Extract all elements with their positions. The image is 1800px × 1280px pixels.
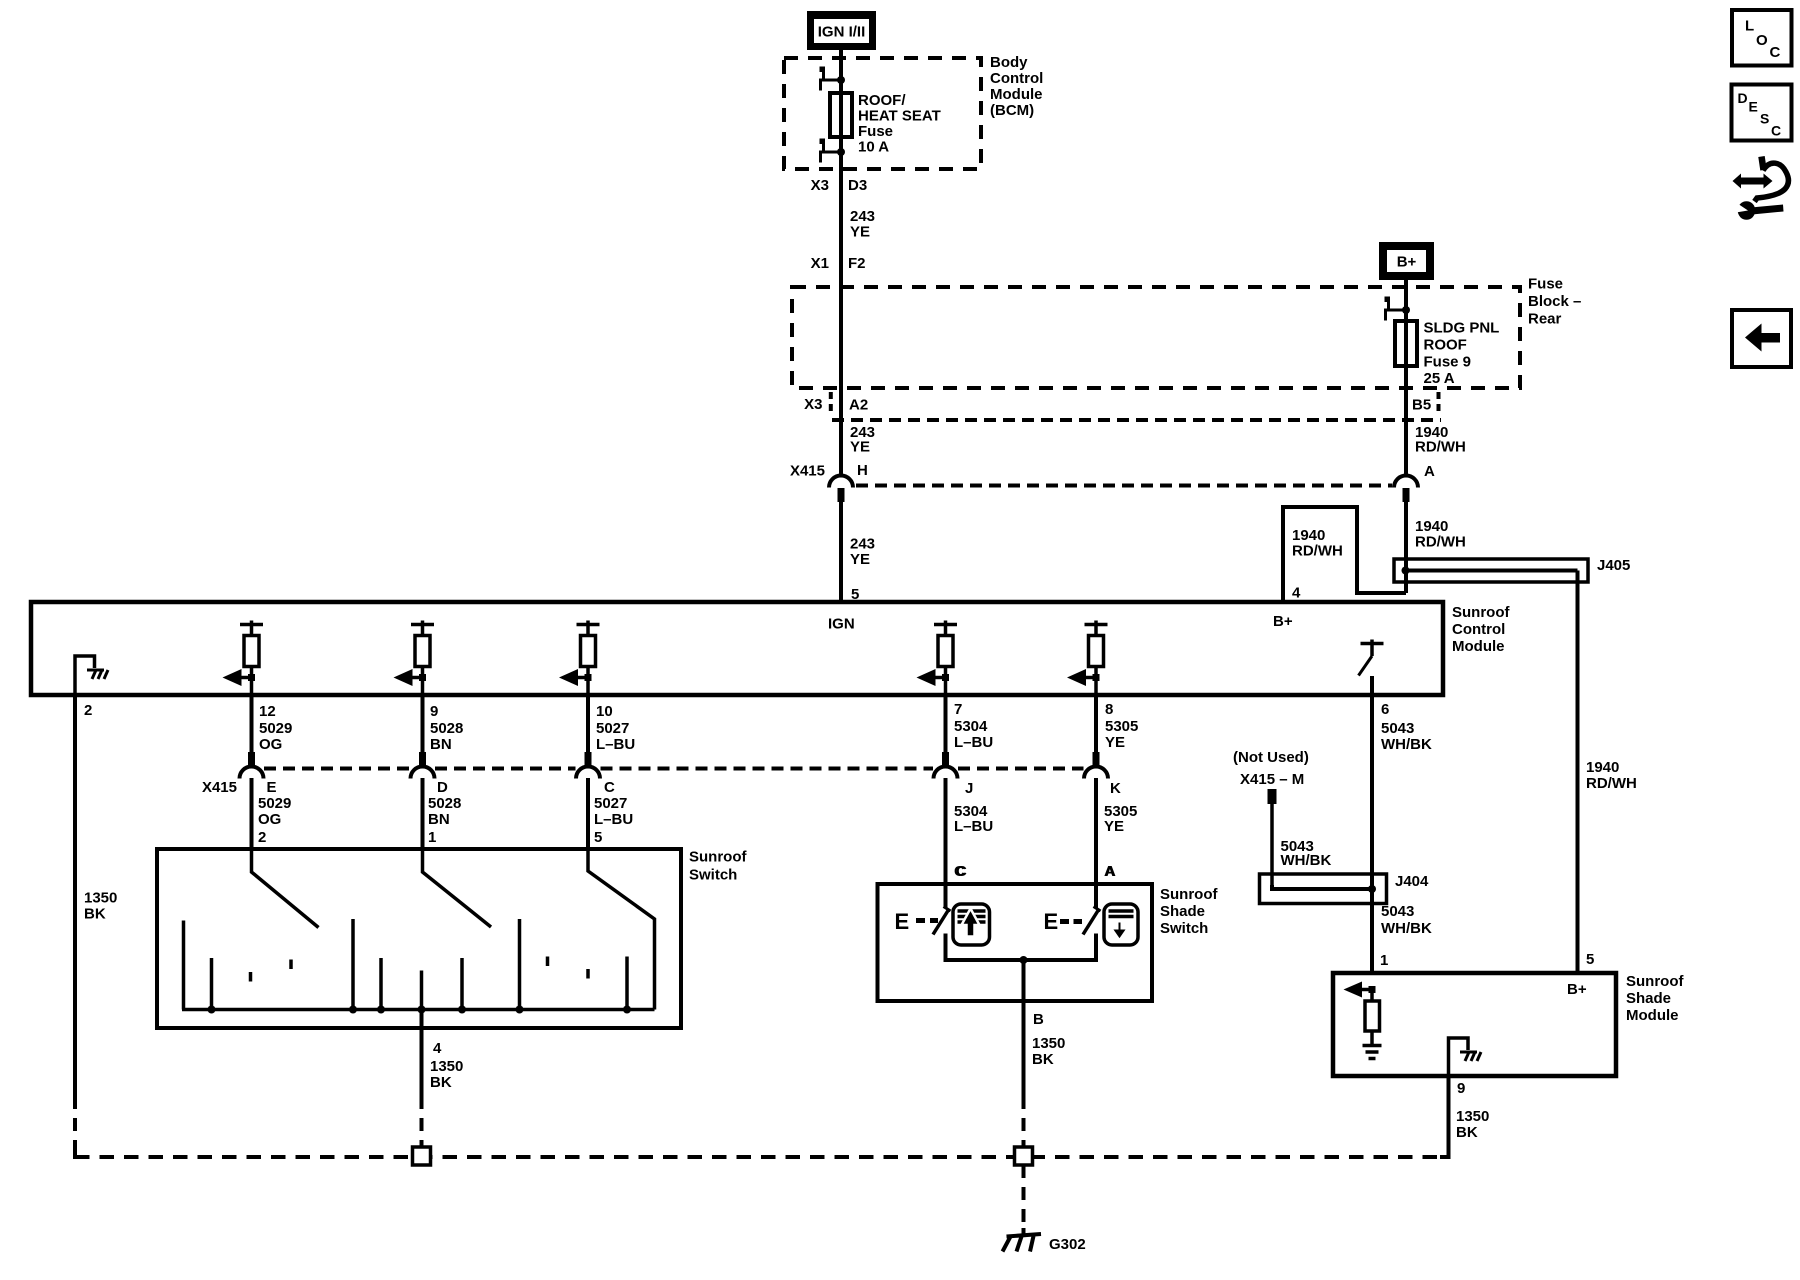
svg-text:12: 12	[259, 703, 276, 720]
driver output pin 8	[1067, 621, 1108, 696]
svg-text:1350: 1350	[84, 890, 117, 907]
Sunroof Shade Switch name label	[1160, 886, 1218, 937]
svg-text:5029: 5029	[258, 795, 291, 812]
Body Control Module dashed box	[784, 58, 981, 169]
svg-text:8: 8	[1105, 701, 1113, 718]
wire label 243 YE	[850, 208, 875, 241]
svg-text:OG: OG	[259, 736, 282, 753]
svg-text:Sunroof: Sunroof	[1626, 973, 1684, 990]
svg-text:YE: YE	[850, 224, 870, 241]
svg-text:1350: 1350	[430, 1058, 463, 1075]
svg-text:Switch: Switch	[1160, 920, 1208, 937]
svg-text:Control: Control	[1452, 621, 1505, 638]
svg-text:SLDG PNL: SLDG PNL	[1424, 320, 1500, 337]
wire 5305 YE to shade switch pin A	[1094, 778, 1098, 908]
connector X415 row label	[202, 779, 237, 796]
svg-text:10: 10	[596, 703, 613, 720]
svg-text:(Not Used): (Not Used)	[1233, 749, 1309, 766]
switch blade from pin 5 to common	[588, 849, 655, 1010]
svg-text:ROOF: ROOF	[1424, 337, 1467, 354]
connector label X415	[790, 463, 825, 480]
svg-text:5304: 5304	[954, 718, 988, 735]
svg-text:Sunroof: Sunroof	[1452, 604, 1510, 621]
svg-text:OG: OG	[258, 811, 281, 828]
wire label 1350 BK	[1032, 1035, 1065, 1068]
driver output pin 12	[223, 621, 264, 696]
svg-text:2: 2	[84, 702, 92, 719]
label G302	[1049, 1236, 1086, 1253]
svg-text:Sunroof: Sunroof	[1160, 886, 1218, 903]
svg-text:Fuse: Fuse	[858, 123, 893, 140]
svg-text:X415 – M: X415 – M	[1240, 771, 1304, 788]
svg-text:BK: BK	[1456, 1124, 1478, 1141]
svg-text:5028: 5028	[428, 795, 461, 812]
svg-text:O: O	[1756, 32, 1768, 49]
Fuse Block Rear name label	[1528, 276, 1581, 328]
input arrow and junction at pin 1	[1344, 982, 1376, 998]
wire label 1940 RD/WH	[1415, 424, 1466, 456]
svg-text:B+: B+	[1567, 981, 1587, 998]
svg-text:IGN: IGN	[828, 616, 855, 633]
svg-text:5043: 5043	[1381, 903, 1414, 920]
svg-text:K: K	[1110, 780, 1121, 797]
icon box DESC	[1732, 85, 1792, 141]
pin name IGN	[828, 616, 855, 633]
svg-text:1350: 1350	[1456, 1108, 1489, 1125]
splice pack J404	[1260, 874, 1387, 904]
wire label 243 YE	[850, 424, 875, 456]
connector X415 plane dashed line (lower row)	[264, 767, 1084, 771]
pin label 4	[1292, 585, 1301, 602]
Sunroof Shade Module box	[1333, 973, 1616, 1076]
svg-text:1940: 1940	[1292, 527, 1325, 544]
fuse value label	[1424, 320, 1500, 388]
svg-text:B+: B+	[1273, 613, 1293, 630]
wire 5304 L-BU to shade switch pin C	[944, 778, 948, 908]
svg-text:E: E	[1044, 909, 1059, 934]
svg-text:4: 4	[1292, 585, 1301, 602]
svg-text:C: C	[1771, 123, 1781, 139]
svg-text:H: H	[857, 462, 868, 479]
svg-text:Switch: Switch	[689, 867, 737, 884]
driver output pin 9	[394, 621, 435, 696]
power feed B+	[1379, 242, 1434, 280]
fuse value label	[858, 92, 941, 156]
Sunroof Shade Switch box	[878, 884, 1153, 1001]
BCM module name label	[990, 54, 1043, 119]
svg-text:243: 243	[850, 536, 875, 553]
wire IGN feed down through BCM to X415 H	[839, 50, 843, 476]
wire label 1940 RD/WH	[1586, 759, 1637, 792]
svg-text:Module: Module	[1626, 1007, 1679, 1024]
svg-text:YE: YE	[1105, 734, 1125, 751]
svg-text:6: 6	[1381, 701, 1389, 718]
shade switch down contact (E actuator)	[1044, 907, 1101, 935]
floating contact ticks	[251, 957, 589, 982]
in-line connector X415 terminal D	[411, 752, 435, 779]
svg-text:YE: YE	[850, 551, 870, 568]
in-line connector X415 terminal C	[576, 752, 600, 779]
connector X415 plane dashed line	[856, 484, 1392, 488]
svg-text:Body: Body	[990, 54, 1028, 71]
terminal label C	[956, 863, 967, 880]
in-line connector X415 terminal K	[1084, 752, 1108, 779]
svg-text:5029: 5029	[259, 720, 292, 737]
in-line connector X415 terminal A	[1394, 476, 1418, 503]
svg-text:1: 1	[1380, 952, 1388, 969]
svg-text:5: 5	[594, 829, 602, 846]
wire pin 6 / 5043 WH/BK down through J404 to shade module pin 1	[1370, 676, 1374, 973]
svg-text:X3: X3	[811, 177, 829, 194]
wire B+ down to X415 A	[1404, 280, 1408, 476]
connector X3 plane dashed line	[832, 418, 1441, 422]
label J405	[1597, 557, 1630, 574]
svg-text:1940: 1940	[1586, 759, 1619, 776]
svg-text:X415: X415	[202, 779, 237, 796]
shade switch up contact (E actuator)	[895, 907, 951, 935]
chassis ground symbol inside shade module	[1460, 1052, 1481, 1061]
pin label 5	[1586, 951, 1594, 968]
svg-text:10 A: 10 A	[858, 139, 889, 156]
wire label 1940 RD/WH (J405 branch)	[1415, 518, 1466, 551]
svg-text:B: B	[1033, 1011, 1044, 1028]
svg-text:BK: BK	[430, 1074, 452, 1091]
svg-text:F2: F2	[848, 255, 866, 272]
wire 1940 RD/WH right side down to shade module pin 5	[1576, 571, 1580, 974]
in-line connector X415 terminal E	[240, 752, 264, 779]
svg-text:L–BU: L–BU	[954, 818, 993, 835]
wire label 1350 BK	[84, 890, 117, 923]
icon box LOC	[1732, 10, 1792, 66]
pin name B+	[1273, 613, 1293, 630]
svg-text:D3: D3	[848, 177, 867, 194]
terminal label A	[1424, 463, 1435, 480]
wire label 5043 WH/BK (below J404)	[1381, 903, 1432, 937]
svg-text:Control: Control	[990, 70, 1043, 87]
svg-text:4: 4	[433, 1040, 442, 1057]
svg-text:Shade: Shade	[1160, 903, 1205, 920]
svg-text:BN: BN	[428, 811, 450, 828]
svg-text:BN: BN	[430, 736, 452, 753]
svg-text:B+: B+	[1397, 254, 1417, 271]
svg-text:WH/BK: WH/BK	[1381, 736, 1432, 753]
wire 243 YE to module pin 5	[839, 502, 843, 602]
svg-text:5027: 5027	[594, 795, 627, 812]
pin label B	[1033, 1011, 1044, 1028]
terminal label A	[1105, 863, 1116, 880]
ground G302	[1003, 1234, 1042, 1252]
svg-text:Module: Module	[1452, 638, 1505, 655]
junction dots on common bus	[208, 1006, 632, 1014]
svg-text:L–BU: L–BU	[596, 736, 635, 753]
svg-text:9: 9	[1457, 1080, 1465, 1097]
driver output pin 7	[917, 621, 958, 696]
pin label 1	[1380, 952, 1388, 969]
driver output pin 10	[559, 621, 600, 696]
svg-text:X415: X415	[790, 463, 825, 480]
wire pin 7 / 5304 L-BU	[944, 695, 948, 752]
fuse holder clip top	[820, 67, 846, 91]
svg-text:J405: J405	[1597, 557, 1630, 574]
in-line connector X415 terminal H	[829, 476, 853, 503]
wire pin 12 / 5029 OG	[250, 695, 254, 752]
svg-text:L: L	[1745, 18, 1754, 35]
svg-text:243: 243	[850, 208, 875, 225]
svg-text:B5: B5	[1412, 397, 1431, 414]
svg-text:A2: A2	[849, 397, 868, 414]
icon shade down	[1104, 904, 1138, 945]
wire label 5043 WH/BK (stub)	[1281, 838, 1332, 869]
power feed IGN I/II	[807, 11, 876, 50]
svg-text:C: C	[1770, 44, 1781, 61]
wire 1940 RD/WH elbow to module pin 4	[1283, 507, 1406, 602]
svg-text:X1: X1	[811, 255, 829, 272]
fuse ROOF/HEAT SEAT 10 A	[830, 93, 852, 137]
wire switch pin 4 / 1350 BK	[420, 1010, 424, 1097]
svg-text:X3: X3	[804, 396, 822, 413]
ground bus dashed wire 1350 BK	[75, 1155, 1449, 1159]
switch output pin 6	[1359, 640, 1384, 676]
pin label 5	[851, 586, 859, 603]
svg-text:5043: 5043	[1381, 720, 1414, 737]
svg-text:5028: 5028	[430, 720, 463, 737]
Fuse Block Rear dashed box	[792, 287, 1520, 388]
shade switch common	[946, 934, 1097, 961]
pin label 2	[84, 702, 92, 719]
svg-text:L–BU: L–BU	[954, 734, 993, 751]
svg-text:A: A	[1424, 463, 1435, 480]
svg-text:Rear: Rear	[1528, 311, 1562, 328]
wire pin 9 / 5028 BN	[421, 695, 425, 752]
svg-text:YE: YE	[850, 439, 870, 456]
internal ground (pin 9)	[1449, 1038, 1469, 1075]
label J404	[1395, 873, 1429, 890]
svg-text:HEAT SEAT: HEAT SEAT	[858, 108, 941, 125]
wire pin 2 (ground) 1350 BK	[73, 695, 77, 1096]
svg-text:Sunroof: Sunroof	[689, 849, 747, 866]
Sunroof Shade Module name label	[1626, 973, 1684, 1024]
svg-text:Shade: Shade	[1626, 990, 1671, 1007]
splice on ground bus (sunroof switch)	[413, 1147, 431, 1165]
connector label X1 F2	[811, 255, 866, 272]
switch blade from pin 1	[423, 849, 492, 927]
svg-text:25 A: 25 A	[1424, 370, 1455, 387]
svg-text:Block –: Block –	[1528, 293, 1581, 310]
svg-text:(BCM): (BCM)	[990, 102, 1034, 119]
wire 5028 BN to sunroof switch pin 1	[421, 778, 425, 849]
wire label 243 YE	[850, 536, 875, 569]
svg-text:BK: BK	[1032, 1051, 1054, 1068]
svg-text:G302: G302	[1049, 1236, 1086, 1253]
Sunroof Switch box	[157, 849, 681, 1028]
internal ground (pin 2)	[75, 656, 95, 693]
connector riser tick left	[829, 392, 833, 414]
svg-text:1350: 1350	[1032, 1035, 1065, 1052]
svg-text:Fuse 9: Fuse 9	[1424, 354, 1472, 371]
connector label B5	[1412, 397, 1431, 414]
wire B down to ground bus	[1022, 1001, 1026, 1096]
svg-text:5027: 5027	[596, 720, 629, 737]
svg-text:IGN I/II: IGN I/II	[818, 24, 866, 41]
signal ground symbol	[1363, 1046, 1382, 1059]
svg-text:D: D	[437, 779, 448, 796]
svg-text:Fuse: Fuse	[1528, 276, 1563, 293]
svg-text:5: 5	[1586, 951, 1594, 968]
svg-text:9: 9	[430, 703, 438, 720]
ground bus corner pieces	[75, 1150, 84, 1157]
svg-text:J: J	[965, 780, 973, 797]
svg-text:1: 1	[428, 829, 436, 846]
wire 5029 OG to sunroof switch pin 2	[250, 778, 254, 849]
switch common bus	[182, 1008, 655, 1012]
svg-text:ROOF/: ROOF/	[858, 92, 906, 109]
svg-text:WH/BK: WH/BK	[1281, 852, 1332, 869]
splice on ground bus (shade switch / G302)	[1015, 1147, 1033, 1165]
splice pack J405	[1394, 559, 1588, 582]
not used terminal X415-M	[1233, 749, 1309, 885]
wire label 1940 RD/WH (pin 4 branch)	[1292, 527, 1343, 560]
svg-text:1940: 1940	[1415, 518, 1448, 535]
wire shade switch pin B	[1022, 960, 1026, 1001]
wire 5027 L-BU to sunroof switch pin 5	[586, 778, 590, 849]
svg-text:Module: Module	[990, 86, 1043, 103]
svg-text:BK: BK	[84, 906, 106, 923]
svg-text:RD/WH: RD/WH	[1586, 775, 1637, 792]
svg-text:RD/WH: RD/WH	[1415, 534, 1466, 551]
svg-text:S: S	[1760, 111, 1769, 127]
svg-text:L–BU: L–BU	[594, 811, 633, 828]
svg-text:C: C	[956, 863, 967, 880]
icon shade up	[953, 904, 990, 945]
svg-text:E: E	[267, 779, 277, 796]
wire 1940 RD/WH from X415 A to splice J405	[1404, 502, 1408, 593]
icon box back arrow	[1732, 310, 1791, 367]
svg-text:E: E	[1749, 99, 1758, 115]
svg-text:YE: YE	[1104, 818, 1124, 835]
terminal label H	[857, 462, 868, 479]
in-line connector X415 terminal J	[934, 752, 958, 779]
Sunroof Control Module box	[31, 602, 1443, 695]
svg-text:A: A	[1105, 863, 1116, 880]
svg-text:J404: J404	[1395, 873, 1429, 890]
wire splice to G302	[1022, 1165, 1026, 1228]
wire pin 8 / 5305 YE	[1094, 695, 1098, 752]
connector riser tick right	[1437, 392, 1441, 414]
svg-text:WH/BK: WH/BK	[1381, 920, 1432, 937]
fuse SLDG PNL ROOF Fuse 9 25 A	[1395, 321, 1417, 366]
fuse holder clip bottom	[820, 139, 846, 163]
connector label X3 A2	[804, 396, 868, 414]
Sunroof Control Module name label	[1452, 604, 1510, 655]
contact posts	[184, 919, 628, 1010]
switch blade from pin 2	[252, 849, 319, 928]
svg-text:D: D	[1738, 90, 1748, 106]
svg-text:RD/WH: RD/WH	[1292, 543, 1343, 560]
Sunroof Switch name label	[689, 849, 747, 884]
chassis ground symbol inside module	[87, 670, 108, 679]
svg-text:7: 7	[954, 701, 962, 718]
svg-text:5305: 5305	[1105, 718, 1138, 735]
connector label X3 D3	[811, 177, 868, 194]
svg-text:RD/WH: RD/WH	[1415, 439, 1466, 456]
internal resistor	[1365, 993, 1380, 1045]
svg-text:E: E	[895, 909, 910, 934]
pin name B+	[1567, 981, 1587, 998]
fuse holder clip	[1385, 297, 1411, 321]
icon navigation arrows and wrench	[1733, 157, 1789, 220]
svg-text:C: C	[604, 779, 615, 796]
wire shade module pin 9 / 1350 BK	[1447, 1076, 1451, 1157]
svg-text:2: 2	[258, 829, 266, 846]
wire pin 10 / 5027 L-BU	[586, 695, 590, 752]
